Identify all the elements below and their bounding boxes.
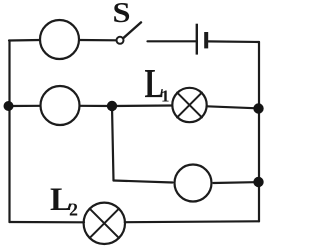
label L2 (lamp) — [50, 182, 78, 220]
wire row3: middle branch corner to meter3 — [114, 181, 173, 183]
wire row2: meter2 to middle junction — [80, 105, 113, 107]
label L1 (lamp) — [145, 60, 170, 106]
junction dot: left wire row2 — [4, 101, 14, 111]
battery positive plate (long thin) — [196, 24, 198, 55]
wire row2: middle junction to lamp L1 — [112, 104, 172, 107]
meter (unlabeled circle, row 3) — [175, 165, 212, 202]
meter (unlabeled circle, row 2) — [41, 86, 80, 125]
svg-text:S: S — [113, 0, 131, 29]
wire bottom row: lamp L2 to right corner — [125, 220, 259, 223]
wire top row: battery to right corner — [208, 40, 259, 43]
wire top row: switch to battery — [148, 40, 196, 42]
switch S blade (open) — [123, 22, 141, 38]
wire bottom row: left corner to lamp L2 — [10, 221, 85, 224]
junction dot: middle branch row2 — [107, 101, 117, 111]
wire row3: meter3 to right junction — [214, 181, 255, 184]
switch S pivot circle — [117, 37, 124, 44]
meter (unlabeled circle, top row) — [40, 20, 79, 59]
wire middle vertical branch — [112, 106, 114, 181]
lamp L2 (circle with X) — [84, 203, 125, 244]
wire left vertical — [8, 41, 10, 223]
svg-text:1: 1 — [161, 87, 170, 106]
battery negative plate (short thick) — [204, 32, 208, 48]
svg-text:2: 2 — [69, 200, 78, 220]
wire top row: meter to switch — [80, 39, 117, 41]
wire row2: lamp L1 to right junction — [207, 106, 254, 108]
junction dot: right wire at row3 — [253, 177, 263, 187]
wire row2: left wire to meter2 — [10, 105, 41, 107]
wire top row: left corner to meter — [9, 39, 40, 42]
lamp L1 (circle with X) — [172, 88, 206, 122]
junction dot: right wire at L1 row — [253, 103, 263, 113]
wire right vertical — [258, 42, 260, 221]
